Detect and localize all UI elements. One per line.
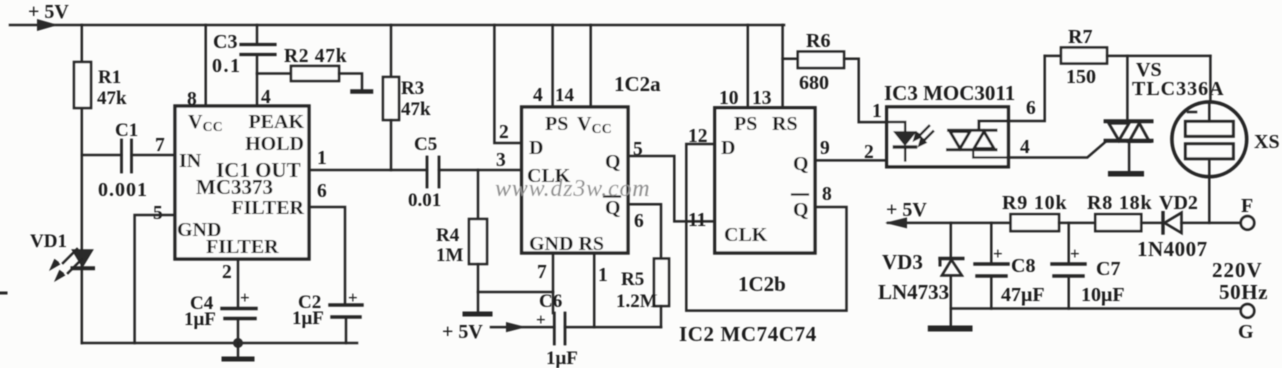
- IC3 light arrows: [913, 126, 934, 148]
- IC3 internal photo-triac: [948, 121, 1009, 158]
- capacitor C8: [975, 223, 1045, 309]
- ground under R2: [353, 89, 372, 94]
- svg-text:1N4007: 1N4007: [1137, 237, 1208, 261]
- svg-text:PS: PS: [545, 113, 568, 135]
- svg-text:10μF: 10μF: [1081, 284, 1125, 306]
- IC3 pin numbers: [864, 98, 1036, 163]
- capacitor C3: [212, 25, 275, 106]
- svg-text:R3: R3: [401, 78, 424, 99]
- svg-text:PS: PS: [734, 113, 757, 135]
- watermark: [495, 176, 650, 202]
- svg-text:1: 1: [872, 101, 882, 122]
- svg-text:HOLD: HOLD: [245, 133, 304, 155]
- wire IC2a pin4 to rail: [551, 25, 554, 107]
- svg-text:PEAK: PEAK: [248, 111, 304, 133]
- svg-text:8: 8: [822, 184, 832, 205]
- svg-text:D: D: [529, 137, 543, 159]
- svg-text:Q: Q: [793, 199, 809, 221]
- svg-text:R2 47k: R2 47k: [284, 46, 347, 67]
- svg-text:VD2: VD2: [1159, 192, 1198, 214]
- resistor R9: [1002, 192, 1095, 231]
- svg-text:LN4733: LN4733: [878, 280, 949, 304]
- zener diode VD3: [878, 223, 963, 309]
- svg-text:C3: C3: [213, 31, 237, 53]
- svg-text:7: 7: [155, 135, 165, 156]
- ground under VD3: [931, 309, 970, 329]
- svg-text:680: 680: [799, 72, 829, 94]
- svg-text:8: 8: [187, 89, 197, 110]
- 1C2b label: [738, 272, 786, 296]
- svg-text:R9 10k: R9 10k: [1002, 192, 1067, 214]
- svg-text:13: 13: [752, 88, 772, 109]
- svg-text:0.1: 0.1: [212, 55, 242, 77]
- svg-text:+: +: [1070, 244, 1080, 263]
- wire IC2b pin12 D feedback to pin8 Qbar: [686, 144, 846, 311]
- bottom ground rail left: [82, 342, 357, 345]
- ground under R4: [465, 312, 490, 317]
- wire IC2a pin1 RS down: [593, 253, 596, 327]
- capacitor C6: [536, 291, 661, 368]
- wire IC3 pin4 to VS gate: [1008, 142, 1105, 158]
- svg-text:5: 5: [153, 203, 163, 224]
- svg-text:1μF: 1μF: [184, 309, 216, 330]
- +5V label top-left: [28, 1, 69, 31]
- svg-text:2: 2: [864, 142, 874, 163]
- socket XS: [1172, 102, 1280, 223]
- svg-text:Q: Q: [605, 151, 621, 173]
- svg-text:+: +: [993, 244, 1003, 263]
- svg-text:VD3: VD3: [882, 250, 923, 274]
- svg-text:FILTER: FILTER: [231, 197, 304, 219]
- IC2 MC74C74 label: [679, 322, 817, 346]
- resistor R3: [383, 25, 431, 170]
- svg-text:G: G: [1238, 321, 1254, 343]
- svg-text:GND RS: GND RS: [529, 233, 604, 255]
- svg-text:XS: XS: [1254, 131, 1280, 153]
- svg-text:47k: 47k: [97, 88, 127, 109]
- svg-text:150: 150: [1066, 66, 1096, 88]
- 1C2a label: [614, 72, 661, 96]
- svg-text:1.2M: 1.2M: [616, 291, 658, 312]
- svg-text:C5: C5: [414, 134, 437, 155]
- wire R7 corner down to XS: [1209, 56, 1212, 102]
- svg-text:1: 1: [317, 148, 327, 169]
- IC2b pin numbers: [688, 88, 832, 231]
- svg-text:1: 1: [598, 265, 608, 286]
- svg-text:7: 7: [537, 262, 547, 283]
- photodiode VD1: [30, 231, 93, 268]
- wire IC2a Qbar pin6 to R5: [628, 204, 661, 258]
- wire IC1 pin5 GND to bottom rail: [135, 215, 175, 343]
- svg-text:RS: RS: [772, 113, 798, 135]
- svg-text:4: 4: [1020, 137, 1030, 158]
- svg-text:C1: C1: [115, 120, 138, 141]
- svg-text:+ 5V: + 5V: [442, 321, 483, 343]
- +5V supply rail top: [10, 24, 784, 27]
- svg-text:R1: R1: [98, 67, 121, 88]
- wire IC2b pin13 to rail: [781, 25, 784, 108]
- svg-text:4: 4: [533, 85, 543, 106]
- svg-text:1μF: 1μF: [292, 308, 324, 329]
- 220V 50Hz label: [1212, 258, 1268, 304]
- IC3 internal LED: [887, 122, 916, 160]
- IC1 labels: [177, 111, 305, 258]
- svg-text:R8 18k: R8 18k: [1087, 192, 1152, 214]
- IC1 MC3373 box: [175, 106, 309, 259]
- IC1 pin numbers: [153, 87, 327, 283]
- resistor R7: [1045, 26, 1211, 88]
- resistor R5: [616, 259, 669, 328]
- svg-text:1C2a: 1C2a: [614, 72, 661, 96]
- wire left vertical (R1/C1/VD1 branch): [81, 25, 84, 343]
- wire pin8 Vcc to rail: [204, 25, 207, 106]
- capacitor C4: [184, 288, 256, 343]
- IC3 MOC3011 box: [887, 107, 1009, 167]
- svg-text:+: +: [240, 288, 250, 307]
- IC2b flip-flop box: [715, 108, 815, 253]
- svg-text:F: F: [1241, 195, 1253, 217]
- svg-text:1C2b: 1C2b: [738, 272, 786, 296]
- svg-text:Q: Q: [793, 153, 809, 175]
- svg-text:+: +: [536, 310, 546, 329]
- IC2b labels: [721, 113, 809, 246]
- resistor R4: [436, 170, 487, 312]
- wire IC3 pin6 to R7: [1008, 56, 1044, 121]
- IC2a labels: [527, 113, 621, 255]
- triac VS: [1106, 56, 1152, 174]
- wire IC1 pin1 OUT to C5: [309, 169, 427, 172]
- svg-text:6: 6: [634, 211, 644, 232]
- svg-text:IC3 MOC3011: IC3 MOC3011: [884, 81, 1015, 105]
- svg-text:IN: IN: [179, 150, 202, 172]
- svg-text:C6: C6: [539, 291, 562, 312]
- ground symbol bottom left: [224, 343, 252, 359]
- capacitor C1: [82, 120, 175, 201]
- svg-text:4: 4: [261, 87, 271, 108]
- svg-text:C8: C8: [1011, 255, 1035, 277]
- svg-text:R4: R4: [436, 225, 460, 246]
- svg-text:9: 9: [820, 138, 830, 159]
- svg-text:3: 3: [496, 150, 506, 171]
- svg-text:10: 10: [719, 88, 739, 109]
- svg-text:47k: 47k: [401, 99, 431, 120]
- capacitor C5: [408, 134, 522, 211]
- svg-text:1μF: 1μF: [546, 348, 578, 368]
- svg-text:C7: C7: [1096, 258, 1120, 280]
- wire IC2a pin2 D to rail: [494, 25, 521, 143]
- bottom rail right: [951, 307, 1241, 310]
- svg-text:IC2 MC74C74: IC2 MC74C74: [679, 322, 817, 346]
- resistor R2: [257, 46, 362, 90]
- wire IC1 pin2 to C4: [237, 259, 240, 307]
- svg-text:2: 2: [222, 262, 232, 283]
- svg-text:R7: R7: [1068, 26, 1092, 48]
- wire IC2b pin10 to rail: [747, 25, 750, 108]
- terminal F: [1241, 195, 1254, 230]
- wire IC2a pin7 GND down: [552, 253, 555, 313]
- wire IC2b pin9 Q to IC3 pin2: [815, 159, 905, 162]
- IC2a flip-flop box: [522, 107, 628, 253]
- resistor R8: [1087, 192, 1152, 231]
- svg-text:D: D: [721, 137, 735, 159]
- svg-text:+ 5V: + 5V: [28, 1, 69, 23]
- wire IC1 pin6 FILTER to C2: [309, 207, 345, 304]
- svg-text:CLK: CLK: [724, 224, 768, 246]
- svg-text:0.01: 0.01: [408, 190, 441, 211]
- svg-text:6: 6: [317, 181, 327, 202]
- svg-text:1M: 1M: [436, 245, 464, 266]
- svg-text:0.001: 0.001: [98, 179, 148, 201]
- svg-text:6: 6: [1026, 98, 1036, 119]
- svg-text:47μF: 47μF: [1001, 284, 1045, 306]
- +5V output arrow bottom right: [885, 199, 1011, 228]
- resistor R1: [74, 62, 127, 109]
- svg-text:www.dz3w.com: www.dz3w.com: [495, 176, 650, 202]
- wire R4 to IC2a pin7: [478, 291, 553, 294]
- svg-text:FILTER: FILTER: [206, 236, 279, 258]
- svg-text:14: 14: [555, 85, 575, 106]
- wire IC2a pin14 to rail: [589, 25, 592, 107]
- svg-text:220V: 220V: [1212, 258, 1263, 282]
- resistor R6: [783, 30, 887, 122]
- VS labels: [1132, 59, 1225, 100]
- IC3 label: [884, 81, 1015, 105]
- VD1 light arrows: [49, 249, 82, 282]
- IC2a pin numbers: [496, 85, 644, 286]
- terminal G: [1238, 304, 1254, 343]
- svg-text:11: 11: [688, 210, 706, 231]
- diode VD2: [1137, 192, 1241, 261]
- capacitor C7: [1052, 223, 1125, 309]
- svg-text:50Hz: 50Hz: [1219, 280, 1268, 304]
- capacitor C2: [292, 288, 362, 343]
- +5V arrow into C6: [442, 321, 554, 343]
- left edge scan mark: [0, 292, 6, 295]
- svg-text:R6: R6: [806, 30, 830, 52]
- svg-text:2: 2: [499, 122, 509, 143]
- svg-text:VD1: VD1: [30, 231, 67, 252]
- svg-text:R5: R5: [621, 269, 644, 290]
- junction node at C4 bottom: [233, 338, 243, 348]
- svg-text:MC3373: MC3373: [196, 175, 273, 199]
- svg-text:+: +: [348, 288, 358, 307]
- wire IC2a Q pin5 to IC2b pin11: [628, 156, 715, 221]
